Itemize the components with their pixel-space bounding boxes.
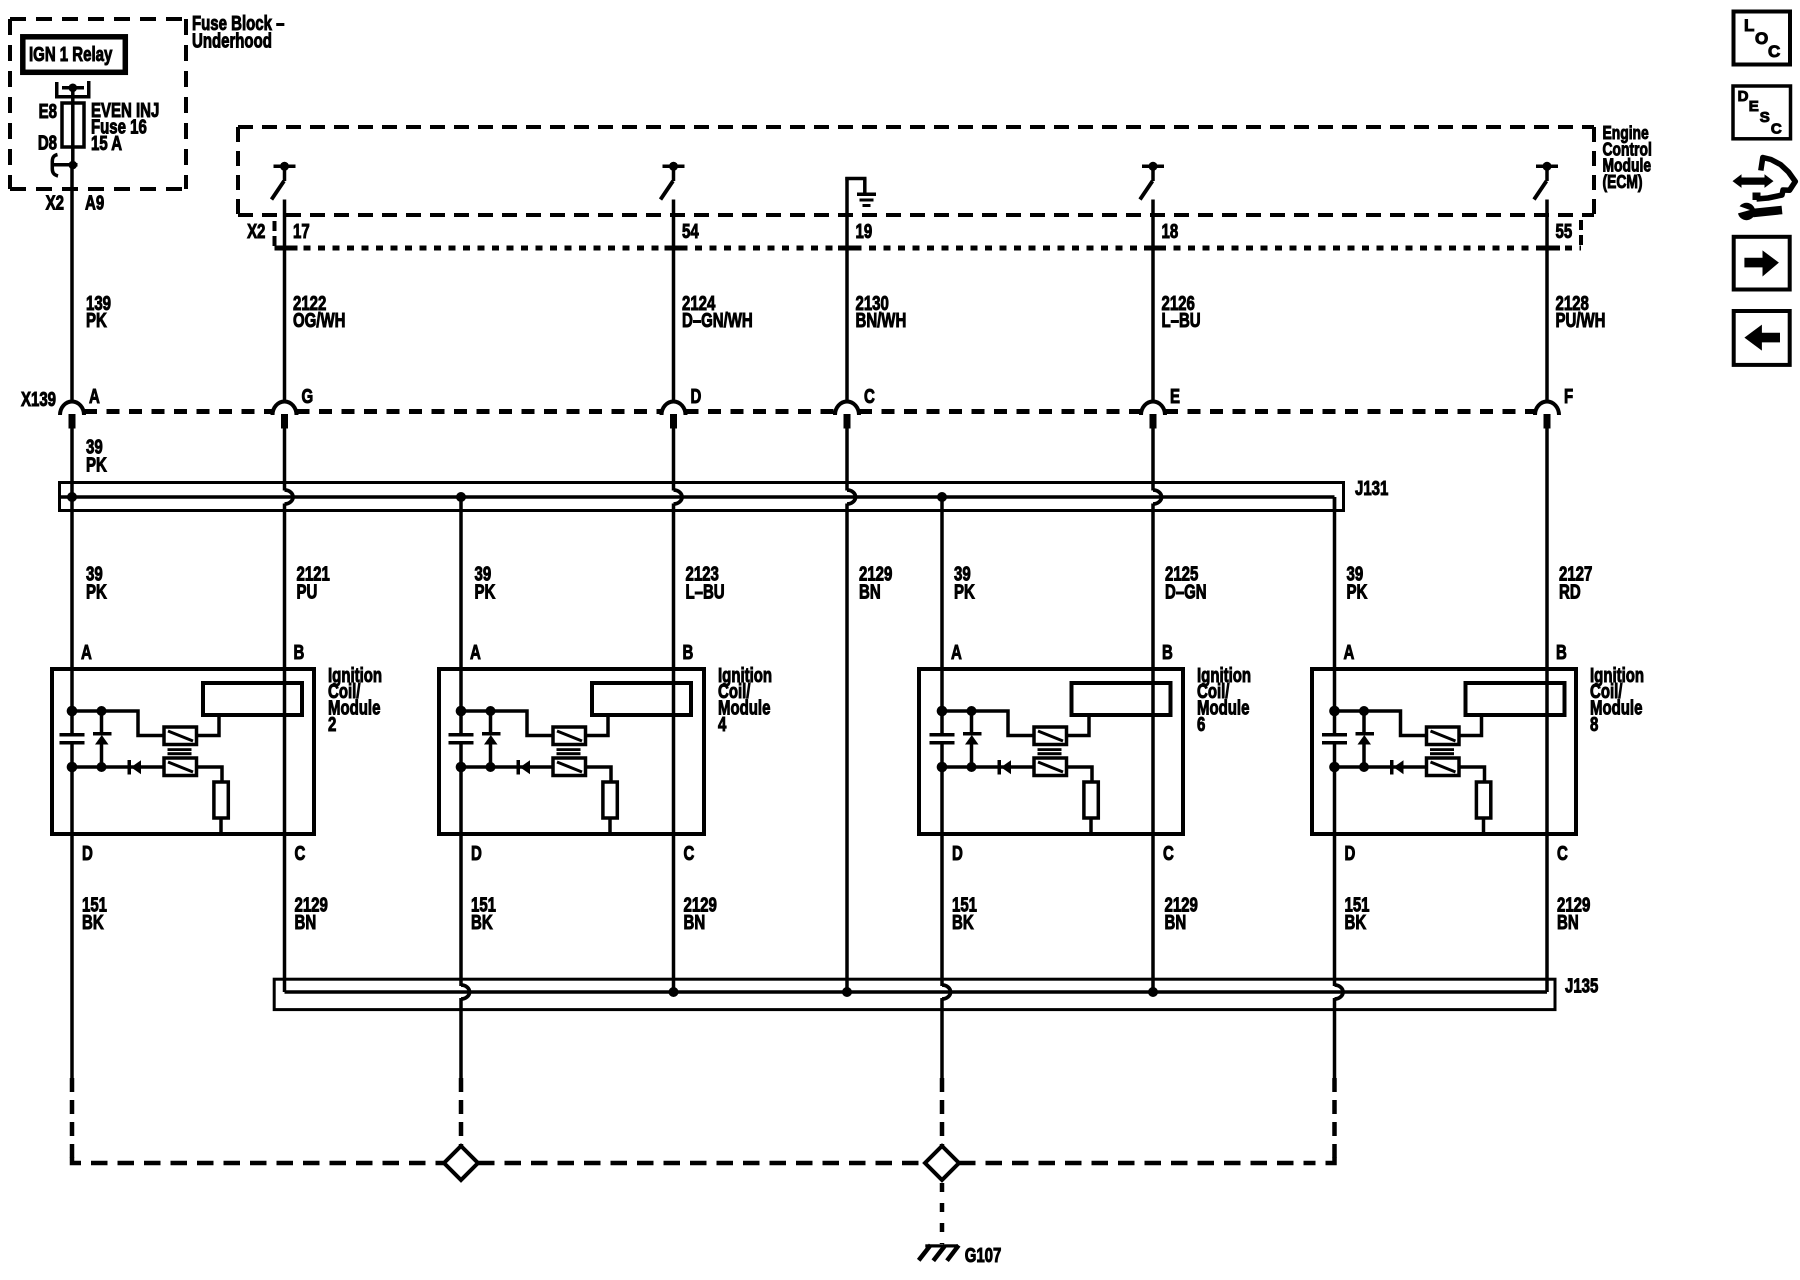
svg-text:Underhood: Underhood [192,29,272,52]
svg-text:C: C [864,385,875,408]
wire label 2130 [856,292,907,332]
icon LOC [1734,12,1791,65]
transformer module 8 [1427,727,1460,776]
diode module 2 [128,760,142,775]
pin letter C [864,385,875,408]
primary feed module 6 [1067,715,1090,736]
fuse F16 EVEN INJ 15 A [62,103,84,147]
svg-text:D–GN: D–GN [1165,580,1207,603]
capacitor module 6 [930,733,955,745]
svg-text:PK: PK [954,580,975,603]
ECM driver pin 18 [1140,162,1164,200]
svg-text:D: D [691,385,702,408]
junction dots on J135 [669,987,1159,997]
svg-text:B: B [1556,641,1567,664]
wire label 39 PK [86,436,107,476]
capacitor module 8 [1322,733,1347,745]
wire 2123 L-BU to module 4 B [672,504,676,993]
wire label 2128 [1556,292,1606,332]
svg-text:D: D [952,842,963,865]
svg-text:BK: BK [82,911,104,934]
svg-text:G107: G107 [965,1244,1002,1267]
svg-text:RD: RD [1559,580,1581,603]
svg-text:PK: PK [86,580,107,603]
svg-text:15 A: 15 A [91,132,122,155]
transformer module 2 [164,727,197,776]
wire hop at x=1153 over J131 [1153,428,1162,504]
wire 39 PK to module 2 [70,497,74,737]
svg-text:A: A [951,641,962,664]
primary feed module 8 [1459,715,1482,736]
wire 2129 BN from pin 19 [845,504,849,993]
wire 151 BK module 2 down [70,836,74,1078]
ECM driver pin 17 [272,162,296,200]
svg-text:C: C [1768,42,1780,61]
module 4 label [718,664,772,736]
diode module 4 [517,760,531,775]
resistor module 4 [603,782,617,834]
ECM label [1603,123,1652,192]
svg-text:A: A [470,641,481,664]
secondary feed module 6 [1067,767,1093,783]
connector X139 pin E [1141,402,1165,429]
svg-text:C: C [1557,842,1568,865]
svg-text:6: 6 [1197,713,1205,736]
svg-text:54: 54 [682,220,699,243]
wire label 151 BK [471,893,496,933]
wire label 151 BK [1345,893,1370,933]
svg-text:D8: D8 [38,131,57,154]
svg-text:X139: X139 [21,388,56,411]
svg-text:D–GN/WH: D–GN/WH [682,309,753,332]
svg-text:J131: J131 [1355,477,1388,500]
dashed wire to ground [940,1183,945,1244]
wire 151 BK module 6 down [942,836,951,1078]
splice pack J135 [274,979,1555,1009]
pin letter D [691,385,702,408]
svg-text:G: G [302,385,314,408]
svg-text:B: B [294,641,305,664]
icon back arrow [1734,311,1790,365]
svg-text:BK: BK [952,911,974,934]
pin letter A module 6 [951,641,962,664]
fuse block label [192,12,285,52]
wire 39 PK to module 8 [1333,497,1337,737]
svg-text:D: D [1738,88,1749,105]
wire label 2122 [293,292,345,332]
svg-text:BN/WH: BN/WH [856,309,907,332]
svg-text:X2: X2 [247,220,265,243]
svg-text:L–BU: L–BU [686,580,725,603]
icon quick-repair (arrows and wrench) [1733,158,1796,221]
svg-text:PK: PK [86,309,107,332]
svg-text:E: E [1170,385,1180,408]
svg-text:4: 4 [718,713,726,736]
connector X139 pin C [835,402,859,429]
terminal E8 label [39,100,57,123]
svg-text:C: C [295,842,306,865]
pin letter A module 2 [81,641,92,664]
terminal clip A9 [52,155,78,177]
wire through fuse [71,88,75,165]
svg-text:A9: A9 [85,191,104,214]
ignition coil/module 4 [439,669,704,834]
svg-text:D: D [1345,842,1356,865]
ignition coil/module 2 [52,669,314,834]
fuse value label [91,99,159,155]
svg-text:IGN 1 Relay: IGN 1 Relay [29,43,112,66]
secondary feed module 8 [1459,767,1485,783]
svg-text:A: A [81,641,92,664]
svg-text:D: D [471,842,482,865]
svg-text:(ECM): (ECM) [1603,172,1643,192]
wire label 2127 [1559,563,1592,603]
pin letter B module 6 [1162,641,1173,664]
wire label 2125 [1165,563,1207,603]
pin letter B module 4 [683,641,694,664]
pin 55 label [1556,220,1573,243]
svg-text:17: 17 [293,220,310,243]
primary feed module 2 [197,715,220,736]
svg-text:F: F [1564,385,1573,408]
svg-text:O: O [1755,29,1768,48]
svg-text:18: 18 [1162,220,1179,243]
svg-text:BK: BK [471,911,493,934]
module 2 label [328,664,382,736]
internal wiring module 6 [937,706,1034,773]
fuse block underhood box [10,19,186,189]
icon DESC [1733,86,1791,139]
pin 54 label [682,220,699,243]
pin letter D module 2 [82,842,93,865]
diode module 6 [998,760,1012,775]
wire 2124 D&#8211;GN/WH [672,200,676,402]
svg-text:PU: PU [297,580,318,603]
wire 2121 PU to module 2 B [283,504,287,993]
zener diode module 6 [963,711,982,767]
junction dots on J131 [67,492,947,502]
wire label 2129 BN [684,893,717,933]
pin letter D module 8 [1345,842,1356,865]
pin letter A module 4 [470,641,481,664]
ignition coil/module 6 [919,669,1183,834]
zener diode module 8 [1356,711,1375,767]
internal wiring module 8 [1329,706,1426,773]
pin letter C module 2 [295,842,306,865]
wire label 139 PK [86,292,111,332]
capacitor module 4 [449,733,474,745]
module 6 label [1197,664,1251,736]
wire 2127 RD to module 8 B [1545,428,1549,992]
wire hop at x=284.5 over J131 [285,428,294,504]
wire label 39 [954,563,975,603]
wire A through capacitor module 4 [459,741,463,836]
pin letter E [1170,385,1180,408]
svg-text:E: E [1749,98,1759,115]
wire label 2129 [859,563,892,603]
module 8 label [1590,664,1644,736]
svg-text:B: B [1162,641,1173,664]
splice pack J131 [60,483,1344,513]
connector X139 label [21,388,56,411]
primary feed module 4 [586,715,609,736]
pin letter C module 4 [684,842,695,865]
wire 2130 BN/WH [845,177,849,401]
connector X139 pin G [273,402,297,429]
wire label 2124 [682,292,753,332]
transformer module 4 [553,727,586,776]
J135 label [1565,974,1598,997]
wire hop at x=847 over J131 [847,428,856,504]
svg-text:D: D [82,842,93,865]
svg-text:19: 19 [856,220,873,243]
wire 2122 OG/WH [283,200,287,402]
pin letter G [302,385,314,408]
ground G107 [919,1244,959,1260]
svg-text:C: C [1771,121,1782,138]
svg-text:PK: PK [475,580,496,603]
svg-text:BN: BN [1557,911,1579,934]
coil winding module 6 [1072,683,1171,715]
ECM driver pin 55 [1534,162,1558,200]
wire 39 PK to module 6 [940,497,944,737]
pin letter C module 8 [1557,842,1568,865]
wire 151 BK module 4 down [461,836,470,1078]
transformer module 6 [1034,727,1067,776]
zener diode module 2 [93,711,112,767]
J131 label [1355,477,1388,500]
svg-text:J135: J135 [1565,974,1598,997]
svg-text:BK: BK [1345,911,1367,934]
wire label 151 BK [952,893,977,933]
dashed splice bus [72,1158,1335,1164]
wire label 2123 [686,563,725,603]
diode module 8 [1390,760,1404,775]
secondary feed module 4 [586,767,612,783]
wire 139 PK [70,165,74,401]
svg-text:PK: PK [86,453,107,476]
wire 151 BK module 8 down [1335,836,1344,1078]
connector X139 row [84,409,1535,414]
pin letter B module 2 [294,641,305,664]
svg-text:BN: BN [859,580,881,603]
icon forward arrow [1734,237,1790,290]
wire label 39 [86,563,107,603]
ECM driver pin 54 [661,162,685,200]
wire label 151 BK [82,893,107,933]
wire 2125 D-GN to module 6 B [1151,504,1155,993]
svg-text:BN: BN [1165,911,1187,934]
coil winding module 2 [203,683,302,715]
connector X2 A9 labels [46,191,105,214]
wire label 2126 [1162,292,1201,332]
svg-text:OG/WH: OG/WH [293,309,345,332]
terminal D8 label [38,131,57,154]
wire label 2129 BN [1557,893,1590,933]
wire A through capacitor module 6 [940,741,944,836]
svg-text:8: 8 [1590,713,1598,736]
resistor module 6 [1084,782,1098,834]
wire label 2121 [297,563,330,603]
wire label 39 [475,563,496,603]
svg-text:C: C [684,842,695,865]
pin letter A [89,385,100,408]
relay contact [55,81,91,99]
pin letter F [1564,385,1573,408]
svg-text:E8: E8 [39,100,57,123]
svg-text:BN: BN [684,911,706,934]
svg-text:S: S [1760,109,1770,126]
pin letter B module 8 [1556,641,1567,664]
ECM X2 label [247,220,265,243]
svg-text:A: A [1344,641,1355,664]
wire label 2129 BN [1165,893,1198,933]
svg-text:C: C [1163,842,1174,865]
coil winding module 8 [1466,683,1565,715]
wire A through capacitor module 8 [1333,741,1337,836]
resistor module 2 [214,782,228,834]
ECM connector row X2 [275,220,1582,250]
dashed wires to splices [72,1078,1335,1161]
pin letter A module 8 [1344,641,1355,664]
relay K1 IGN 1 Relay [23,37,126,73]
svg-text:PU/WH: PU/WH [1556,309,1606,332]
svg-text:PK: PK [1347,580,1368,603]
internal wiring module 2 [67,706,164,773]
connector X139 pin F [1535,402,1559,429]
ignition coil/module 8 [1312,669,1576,834]
wire 39 PK from X139 A [70,428,74,497]
pin letter D module 6 [952,842,963,865]
svg-text:BN: BN [295,911,317,934]
svg-text:L: L [1744,16,1754,35]
wire hop at x=673.5 over J131 [674,428,683,504]
splice S2 [925,1146,959,1180]
wire A through capacitor module 2 [70,741,74,836]
wire label 39 [1347,563,1368,603]
wire 2128 PU/WH [1545,200,1549,402]
connector X139 pin D [662,402,686,429]
svg-text:55: 55 [1556,220,1573,243]
capacitor module 2 [60,733,85,745]
svg-text:A: A [89,385,100,408]
pin letter C module 6 [1163,842,1174,865]
svg-text:2: 2 [328,713,336,736]
svg-text:X2: X2 [46,191,64,214]
secondary feed module 2 [197,767,223,783]
pin 18 label [1162,220,1179,243]
wire 39 PK to module 4 [459,497,463,737]
pin letter D module 4 [471,842,482,865]
coil winding module 4 [592,683,691,715]
connector X139 pin A [60,402,84,429]
zener diode module 4 [482,711,501,767]
ground label G107 [965,1244,1002,1267]
ECM internal ground pin 19 [845,179,876,208]
pin 19 label [856,220,873,243]
wire label 2129 BN [295,893,328,933]
svg-text:B: B [683,641,694,664]
svg-text:L–BU: L–BU [1162,309,1201,332]
splice S1 [444,1146,478,1180]
ECM box [238,127,1594,215]
pin 17 label [293,220,310,243]
resistor module 8 [1476,782,1490,834]
wire 2126 L&#8211;BU [1151,200,1155,402]
internal wiring module 4 [456,706,553,773]
